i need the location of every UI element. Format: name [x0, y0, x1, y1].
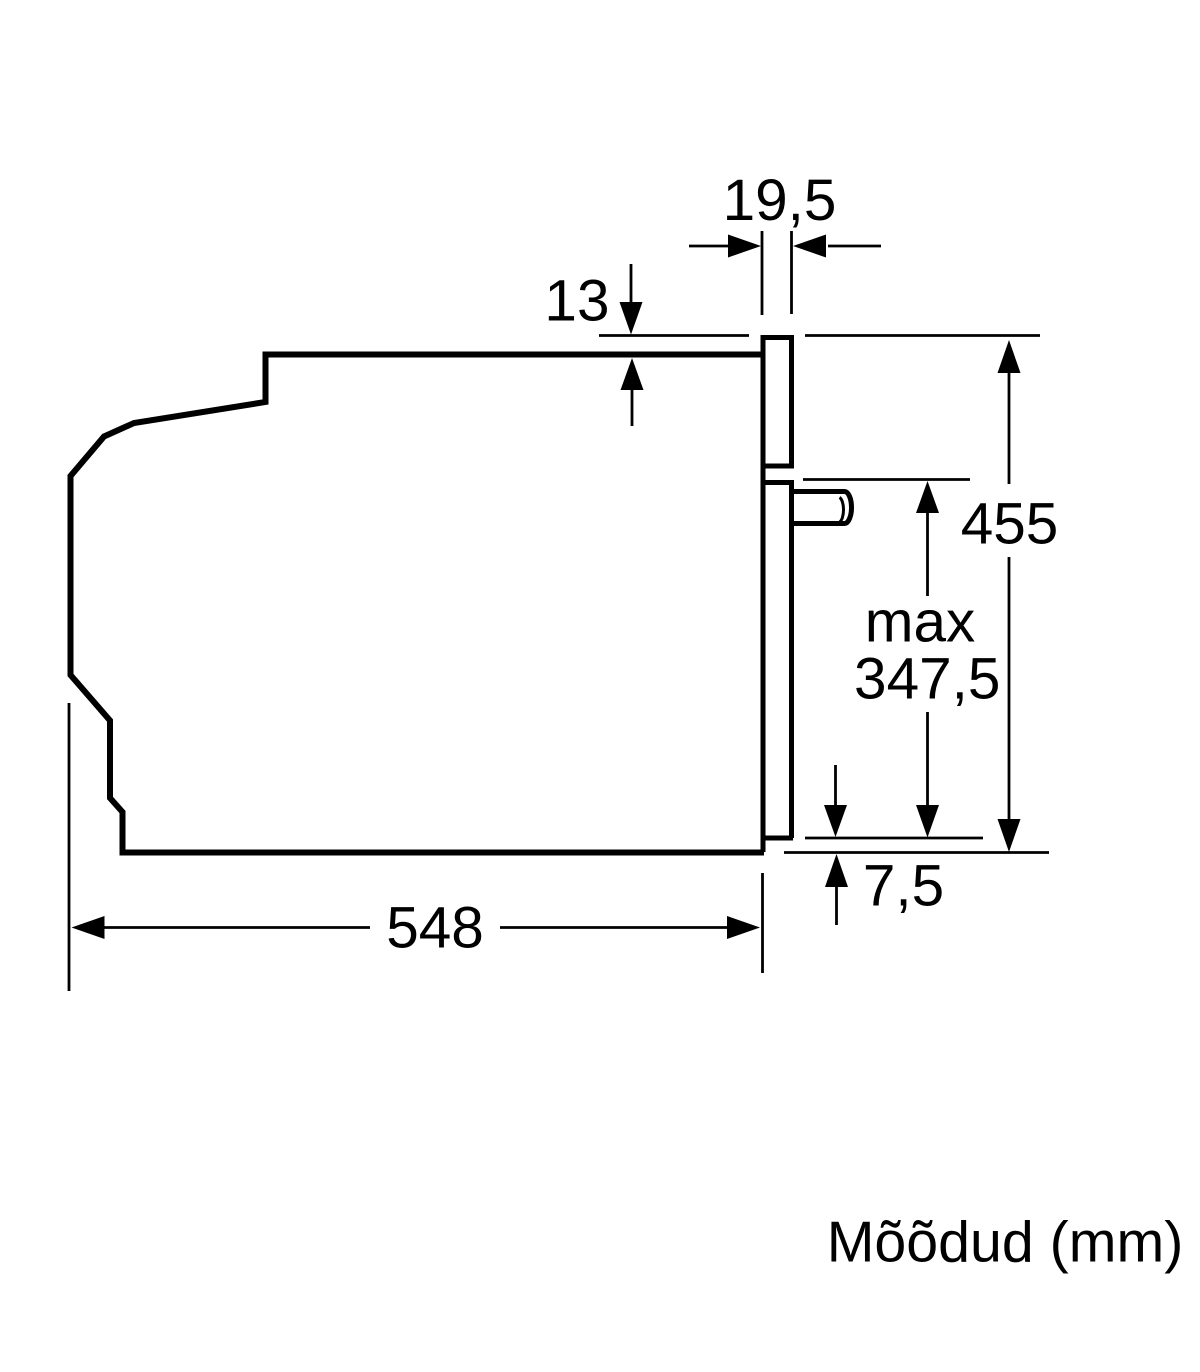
reference line A left (top of front panel, left) — [599, 334, 749, 337]
dim 13 upper arrow — [630, 264, 633, 303]
dim 548 extension line right — [761, 873, 764, 973]
svg-text:548: 548 — [386, 896, 484, 961]
front panel bottom edge — [761, 836, 794, 841]
dim 455 lower arrow — [1008, 557, 1011, 820]
dim max 347,5 lower arrow — [926, 712, 929, 805]
front panel upper section — [763, 338, 792, 467]
front panel lower section right edge — [789, 483, 794, 839]
dim 548 extension line left — [68, 703, 71, 991]
svg-text:347,5: 347,5 — [854, 647, 1000, 712]
dim 7,5 lower arrow — [825, 854, 848, 887]
dim 455 upper arrow — [998, 340, 1021, 373]
front panel lower section top edge — [761, 480, 795, 485]
reference line C (bottom of front panel) — [805, 837, 983, 840]
front panel left edge — [761, 340, 766, 852]
svg-text:13: 13 — [544, 269, 609, 334]
door handle knob — [791, 492, 852, 524]
dim 548 right arrow — [500, 926, 728, 929]
oven body outline — [71, 355, 765, 853]
dim max 347,5 upper arrow — [916, 481, 939, 513]
svg-text:19,5: 19,5 — [723, 168, 837, 233]
dim 19,5 extension line left — [761, 231, 764, 315]
dim 19,5 right arrow — [828, 245, 881, 248]
reference line D (bottom of body) — [784, 851, 1049, 854]
svg-text:Mõõdud (mm): Mõõdud (mm) — [827, 1211, 1184, 1275]
reference line B (top of lower panel) — [803, 478, 970, 481]
reference line A right (top of front panel, right) — [805, 334, 1040, 337]
dim 19,5 extension line right — [790, 231, 793, 314]
dim 548 left arrow — [72, 916, 105, 939]
svg-text:max: max — [865, 590, 976, 655]
knob end cap inner arc — [840, 498, 844, 523]
svg-text:455: 455 — [961, 492, 1059, 557]
svg-text:7,5: 7,5 — [863, 854, 944, 919]
dim 13 lower arrow — [621, 358, 644, 390]
dim 7,5 upper arrow — [834, 765, 837, 805]
dim 19,5 left arrow — [689, 245, 729, 248]
